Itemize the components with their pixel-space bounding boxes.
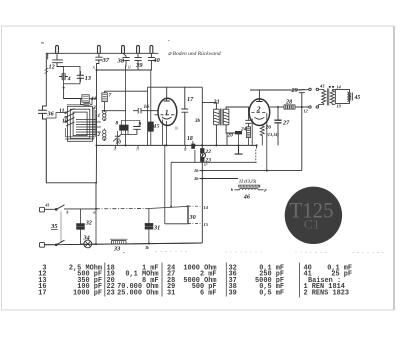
main rail (cathode line) <box>97 144 257 146</box>
svg-text:32: 32 <box>85 220 92 227</box>
wire left drop <box>57 66 64 68</box>
labels switch area <box>59 93 160 146</box>
svg-text:0,5 mF: 0,5 mF <box>259 290 284 298</box>
terminal T1 <box>56 45 59 53</box>
svg-text:39: 39 <box>135 62 143 69</box>
plug contacts top <box>302 89 309 91</box>
capacitor C13 <box>77 72 83 82</box>
vertical A cathode feed <box>164 145 166 223</box>
plate line to R28 <box>270 106 284 108</box>
capacitor C36 <box>39 110 47 183</box>
capacitor C31 <box>145 224 153 226</box>
svg-text:3b: 3b <box>193 176 199 181</box>
diode lamp circle <box>200 153 205 158</box>
paper specks <box>41 40 170 253</box>
svg-text:2: 2 <box>256 105 261 114</box>
svg-text:14: 14 <box>337 85 341 90</box>
resistor R22 <box>201 149 204 153</box>
svg-text:H: H <box>127 66 131 70</box>
svg-text:41: 41 <box>90 96 97 102</box>
labels tube V1 area <box>165 96 247 164</box>
output coil L46 hatched bar <box>239 185 260 187</box>
resistor R8 <box>120 125 129 130</box>
svg-text:1b: 1b <box>194 168 199 173</box>
pot dashed links <box>188 205 202 207</box>
wires and components <box>39 45 159 208</box>
lamp 34 <box>84 240 92 248</box>
svg-text:1P: 1P <box>204 163 209 167</box>
svg-text:3b: 3b <box>144 246 149 250</box>
resistor R26 zigzag <box>260 125 264 139</box>
node plate <box>301 106 303 108</box>
svg-text:29: 29 <box>291 87 298 94</box>
svg-text:N: N <box>92 66 96 70</box>
right vertical from plate node <box>301 107 303 171</box>
svg-text:1l: 1l <box>136 148 139 152</box>
volume pot and AF coupling <box>44 206 202 245</box>
svg-text:34: 34 <box>83 235 90 242</box>
capacitor C4 <box>60 73 68 79</box>
capacitor C40 <box>148 53 154 70</box>
svg-text:37: 37 <box>102 57 110 64</box>
svg-text:26: 26 <box>265 125 272 131</box>
vertical B <box>170 162 172 206</box>
tube V1 anode stub <box>164 87 170 101</box>
svg-text:⌀ Boden und Rückwand: ⌀ Boden und Rückwand <box>168 51 221 57</box>
svg-text:25.000 Ohm: 25.000 Ohm <box>117 290 158 298</box>
svg-text:4: 4 <box>67 76 71 82</box>
heater bus wire <box>97 69 152 71</box>
svg-text:12 (13,15): 12 (13,15) <box>239 179 257 184</box>
resistor R28 <box>284 105 295 109</box>
svg-text:33: 33 <box>113 246 120 253</box>
svg-text:12: 12 <box>304 109 308 114</box>
node heater bus <box>96 69 98 71</box>
svg-text:3b: 3b <box>194 119 201 124</box>
svg-text:1000 pF: 1000 pF <box>73 290 102 298</box>
svg-text:43: 43 <box>45 204 50 208</box>
speaker frame <box>335 89 349 103</box>
tube V1 envelope <box>158 98 177 125</box>
AF takeoff lines <box>200 171 302 179</box>
dark resistor 15 <box>148 122 153 131</box>
svg-text:19: 19 <box>337 104 342 109</box>
box bottom line <box>171 150 257 162</box>
output transformer and speaker <box>302 87 353 108</box>
labels power block <box>45 204 161 253</box>
tube V1 stage <box>96 87 257 243</box>
capacitor C20 <box>235 131 242 134</box>
node box bottom <box>63 87 65 89</box>
svg-text:27: 27 <box>282 120 290 127</box>
wire v x147.5 <box>147 87 149 145</box>
capacitor C39 <box>135 53 142 70</box>
svg-text:b: b <box>67 211 69 215</box>
svg-text:11: 11 <box>59 109 65 115</box>
logo dark circle <box>285 187 342 244</box>
node rail x166.5 <box>166 144 168 146</box>
svg-text:7: 7 <box>109 93 112 99</box>
svg-text:6 mF: 6 mF <box>200 290 217 298</box>
tube V2 anode stub <box>256 90 262 102</box>
capacitor C29 <box>299 90 305 107</box>
coil21 primary feed <box>202 103 216 110</box>
resistor R23 <box>201 157 204 161</box>
capacitor C16 <box>133 108 158 114</box>
wire to top / C29 <box>250 89 302 91</box>
svg-text:36: 36 <box>47 111 55 118</box>
svg-text:43: 43 <box>319 84 325 89</box>
band switch block <box>46 64 157 183</box>
labels top-left <box>47 51 221 118</box>
svg-text:p: p <box>264 187 267 192</box>
parts value table <box>38 263 352 298</box>
capacitor C27 <box>277 107 279 145</box>
svg-text:16: 16 <box>144 104 150 110</box>
wire bundle to coils <box>76 120 101 135</box>
terminal socket top <box>40 207 45 212</box>
resistor R33 <box>112 241 127 244</box>
left vertical wire <box>45 68 48 74</box>
tube V1 cathode <box>162 117 171 119</box>
wire cathode feed down <box>165 223 188 225</box>
tube V1 pins <box>163 120 167 146</box>
svg-text:45: 45 <box>354 95 361 101</box>
power input block <box>40 205 202 248</box>
svg-text:13: 13 <box>85 75 91 82</box>
svg-text:17: 17 <box>38 290 46 298</box>
IF transformer T21 primary <box>214 109 220 125</box>
ground under rail <box>234 145 242 154</box>
potentiometer 30 bar <box>187 206 189 224</box>
svg-text:46: 46 <box>243 194 251 201</box>
table column separators <box>105 263 300 298</box>
long vertical to AF <box>201 87 203 243</box>
node x96 <box>95 208 97 210</box>
resistor R3 <box>82 95 89 102</box>
capacitor C17 <box>181 87 188 145</box>
terminal T3 <box>122 45 125 53</box>
svg-text:10: 10 <box>62 119 68 125</box>
svg-text:9: 9 <box>139 122 142 128</box>
svg-text:1b: 1b <box>175 127 179 131</box>
svg-text:40: 40 <box>152 57 160 64</box>
plug contacts bottom <box>302 106 309 108</box>
tube V2 grid dashes <box>252 112 266 114</box>
node rail x202 <box>201 144 203 146</box>
secondary bottom lead <box>226 125 235 146</box>
transformer T43 primary zigzag <box>319 89 326 107</box>
terminal socket bottom <box>40 243 45 248</box>
svg-text:b: b <box>231 187 233 192</box>
capacitor grid C <box>245 111 251 127</box>
svg-text:23: 23 <box>107 290 115 298</box>
svg-text:8: 8 <box>116 121 119 127</box>
coil L46 bumps <box>240 188 259 190</box>
svg-text:(13,14): (13,14) <box>267 132 280 137</box>
capacitor C45 <box>350 93 353 101</box>
wire bottom-left L <box>46 183 96 209</box>
terminal T2 <box>98 45 101 53</box>
T43 core <box>327 89 329 106</box>
T43 arrows <box>329 86 334 88</box>
mains line top with switch <box>45 205 97 210</box>
svg-text:12: 12 <box>49 64 55 71</box>
svg-text:10: 10 <box>116 140 122 146</box>
op line above tube <box>148 86 203 88</box>
wire 36 to block <box>46 113 66 119</box>
RC cluster loop <box>120 120 140 134</box>
svg-text:C1: C1 <box>304 218 320 232</box>
tube V2 cathode <box>255 117 265 119</box>
capacitor C18 <box>191 144 195 149</box>
svg-text:20: 20 <box>227 133 234 139</box>
node rail x96.5 <box>96 144 98 146</box>
svg-text:30: 30 <box>189 214 196 221</box>
svg-text:39: 39 <box>229 290 237 298</box>
speaker voice coil <box>347 92 348 102</box>
tube V1 grid dashes <box>155 114 175 116</box>
capacitor C32 <box>77 224 85 226</box>
node t21 <box>215 144 217 146</box>
tube V2 stage <box>194 90 305 190</box>
svg-text:35: 35 <box>50 223 58 230</box>
grid wire to V2 <box>226 107 248 111</box>
tube V2 envelope <box>249 99 270 126</box>
bottom AF line <box>44 243 202 245</box>
wire to grid leak <box>64 88 82 99</box>
capacitor C41 <box>81 99 93 106</box>
top chassis rail <box>48 53 158 59</box>
T21 primary bottom lead <box>215 125 217 146</box>
coil L2 <box>103 129 106 142</box>
labels output <box>304 84 361 114</box>
lower box right edge <box>256 145 258 148</box>
svg-text:22: 22 <box>205 149 212 155</box>
svg-text:31: 31 <box>153 225 160 232</box>
coupling box 4/13 <box>64 67 80 84</box>
vertical from C38 down <box>125 70 127 145</box>
T43 secondary zigzag <box>330 89 335 104</box>
capacitor C37 <box>96 53 103 63</box>
coil L1 <box>102 110 107 120</box>
svg-text:1: 1 <box>98 113 101 119</box>
svg-text:2: 2 <box>97 132 101 138</box>
switch gang dash <box>60 212 62 242</box>
svg-text:15: 15 <box>204 222 209 227</box>
capacitor C9 <box>133 127 140 135</box>
resistor R24 <box>246 127 250 138</box>
svg-text:3l: 3l <box>114 148 117 152</box>
pin stubs below rail <box>116 145 186 148</box>
svg-text:28: 28 <box>285 98 292 105</box>
T21 core <box>221 109 223 126</box>
svg-text:38: 38 <box>117 58 125 65</box>
main vertical from C37 <box>95 64 97 183</box>
svg-text:W: W <box>184 148 188 152</box>
svg-text:14: 14 <box>204 205 209 210</box>
svg-text:21: 21 <box>213 99 220 106</box>
heater line dashdot <box>96 208 149 210</box>
svg-text:1: 1 <box>165 108 169 117</box>
svg-text:18: 18 <box>187 136 193 142</box>
svg-text:17: 17 <box>187 96 194 103</box>
IF transformer T21 secondary <box>223 109 229 125</box>
switch block nested rectangles <box>68 106 93 141</box>
terminal T4 <box>137 45 140 53</box>
capacitor C12 <box>53 53 63 66</box>
labels tube V2 area <box>193 87 298 201</box>
capacitor C38 <box>123 53 130 70</box>
terminal T5 <box>150 45 153 53</box>
svg-text:31: 31 <box>167 290 175 298</box>
switch levers <box>66 109 75 127</box>
node rail x125.5 <box>125 144 127 146</box>
wire coil top to grid line <box>102 110 126 112</box>
svg-text:24: 24 <box>240 127 247 133</box>
tube V2 pins <box>252 113 267 171</box>
mains line bottom with switch <box>45 240 202 245</box>
svg-text:2 RENS 1823: 2 RENS 1823 <box>304 290 350 298</box>
labels pot <box>189 205 209 227</box>
svg-text:a: a <box>94 211 96 215</box>
resistor R7 <box>102 93 107 102</box>
trimmer C10 <box>113 131 122 145</box>
